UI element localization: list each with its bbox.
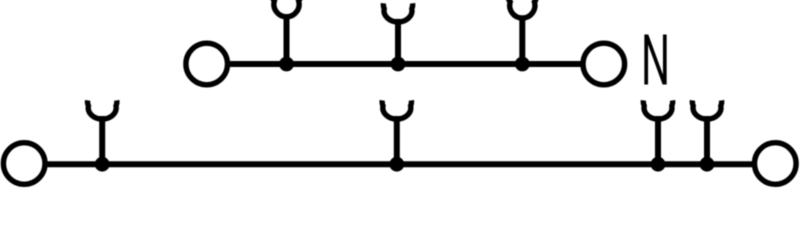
node junction dot J7 (bottom bus) bbox=[700, 157, 715, 172]
wire stem J4 bbox=[99, 116, 105, 164]
clamp contact symbol above J3 bbox=[508, 0, 536, 18]
clamp contact symbol above J7 bbox=[692, 100, 721, 119]
wire stem J2 bbox=[395, 19, 401, 64]
wire stem J3 bbox=[519, 15, 525, 64]
node junction dot J3 (top bus) bbox=[515, 57, 530, 72]
label N (neutral rail) bbox=[646, 35, 665, 85]
node junction dot J2 (top bus) bbox=[391, 57, 406, 72]
wire stem J1 bbox=[284, 14, 290, 64]
node junction dot J1 (top bus) bbox=[279, 57, 294, 72]
wire stem J7 bbox=[704, 116, 710, 164]
terminal circle X1 (top-left) bbox=[186, 43, 228, 85]
terminal circle X2 (top-right) bbox=[583, 43, 625, 85]
clamp contact symbol above J6 bbox=[643, 100, 672, 119]
wire bottom bus bbox=[45, 161, 755, 167]
clamp contact symbol above J1 bbox=[273, 0, 301, 17]
wire top bus bbox=[227, 61, 582, 67]
terminal circle X4 (bottom-right) bbox=[755, 143, 797, 185]
node junction dot J5 (bottom bus) bbox=[389, 157, 404, 172]
clamp contact symbol above J4 bbox=[88, 100, 117, 119]
clamp contact symbol above J2 bbox=[383, 3, 412, 22]
wire stem J5 bbox=[394, 116, 400, 164]
wire stem J6 bbox=[655, 116, 661, 164]
node junction dot J4 (bottom bus) bbox=[95, 157, 110, 172]
clamp contact symbol above J5 bbox=[382, 100, 411, 119]
node junction dot J6 (bottom bus) bbox=[651, 157, 666, 172]
terminal circle X3 (bottom-left) bbox=[3, 143, 45, 185]
